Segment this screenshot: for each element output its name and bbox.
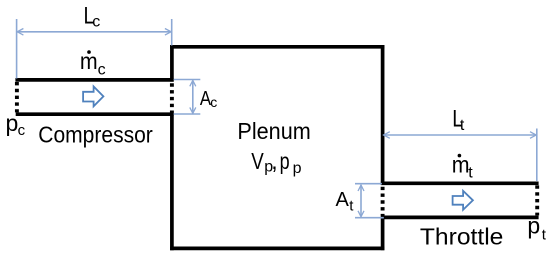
plenum right wall dotted opening (throttle inlet, area At) xyxy=(381,187,385,216)
svg-text:p: p xyxy=(527,213,540,239)
svg-text:p: p xyxy=(6,110,19,136)
At bottom arrowhead xyxy=(358,211,364,217)
svg-text:t: t xyxy=(468,165,473,182)
At top arrowhead xyxy=(358,185,364,191)
throttle duct bottom wall xyxy=(381,216,539,220)
svg-text:c: c xyxy=(210,94,217,110)
Lc dimension right extension line xyxy=(171,19,173,46)
Lt dimension line xyxy=(384,134,536,136)
compressor flow block arrow xyxy=(83,87,103,107)
Ac dimension bottom extension line xyxy=(174,113,201,115)
svg-text:Plenum: Plenum xyxy=(237,118,310,144)
plenum left wall dotted opening (compressor exit, area Ac) xyxy=(170,83,174,112)
plenum box left wall lower segment xyxy=(170,113,174,251)
throttle duct right dotted end xyxy=(535,185,539,215)
svg-text:,: , xyxy=(271,148,277,174)
svg-text:c: c xyxy=(92,14,100,31)
throttle duct top wall xyxy=(381,181,539,185)
throttle flow block arrow xyxy=(453,191,473,210)
plenum box left wall upper segment xyxy=(170,45,174,82)
mdot_c overdot xyxy=(87,50,91,54)
svg-text:c: c xyxy=(18,122,26,139)
At dimension top extension line xyxy=(355,183,382,185)
Lc right arrowhead xyxy=(165,29,171,36)
compressor duct top wall xyxy=(15,78,173,82)
compressor duct bottom wall xyxy=(16,112,174,116)
svg-text:t: t xyxy=(349,197,354,214)
plenum box right wall lower segment xyxy=(381,216,385,251)
svg-text:A: A xyxy=(336,189,350,211)
svg-text:V: V xyxy=(251,148,264,174)
Lc dimension left extension line xyxy=(16,19,18,79)
svg-text:Throttle: Throttle xyxy=(420,224,504,250)
Lt right arrowhead xyxy=(530,132,536,139)
Lt dimension right extension line xyxy=(536,129,538,182)
plenum box bottom wall xyxy=(170,247,384,251)
compressor duct left dotted end xyxy=(15,82,19,112)
Ac dimension line xyxy=(192,81,194,114)
svg-text:c: c xyxy=(98,61,106,78)
Lc dimension line xyxy=(17,31,171,33)
Lt left arrowhead xyxy=(384,132,390,139)
At dimension bottom extension line xyxy=(355,217,384,219)
mdot_t overdot xyxy=(458,154,462,158)
Lc left arrowhead xyxy=(17,29,23,36)
svg-text:p: p xyxy=(280,148,290,174)
svg-text:Compressor: Compressor xyxy=(38,122,153,148)
Ac dimension top extension line xyxy=(174,79,201,81)
Ac bottom arrowhead xyxy=(190,107,196,113)
svg-text:t: t xyxy=(460,117,465,134)
Ac top arrowhead xyxy=(190,80,196,86)
svg-text:t: t xyxy=(542,226,547,243)
At dimension line xyxy=(360,185,362,216)
plenum box top wall xyxy=(170,45,384,49)
plenum box right wall upper segment xyxy=(381,45,385,185)
svg-text:p: p xyxy=(293,160,302,177)
